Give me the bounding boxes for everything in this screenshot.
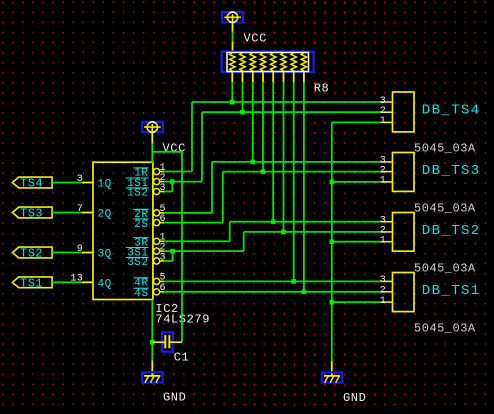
connector DB_TS4 body: [393, 92, 415, 132]
svg-text:3: 3: [380, 275, 386, 286]
wire DB_TS4 pin1 to GND rail: [332, 121, 382, 123]
junction R8d/TS3b: [261, 169, 266, 174]
connector DB_TS1 body: [393, 273, 415, 312]
wire 1S2 tie vertical: [171, 182, 173, 192]
connector TS2: [12, 247, 52, 258]
junction GND/DB_TS1.1: [330, 300, 335, 305]
capacitor C1: [152, 332, 182, 352]
pin 5 bubble (2R): [154, 210, 165, 216]
connector DB_TS2 body: [393, 213, 415, 252]
svg-text:3Q: 3Q: [98, 249, 112, 261]
svg-text:1: 1: [380, 176, 386, 187]
wire net TS3b to DB_TS3 pin2: [223, 171, 382, 173]
svg-text:1Q: 1Q: [98, 179, 112, 191]
wire riser net TS3b: [222, 172, 224, 223]
IC IC2 74LS279 body: [93, 162, 153, 299]
junction R8f/TS2b: [281, 230, 286, 235]
pin stub DB_TS2 pin 1: [382, 241, 393, 243]
svg-text:GND: GND: [343, 391, 366, 405]
svg-text:C1: C1: [174, 350, 190, 364]
svg-text:GND: GND: [163, 390, 186, 404]
junction 1S1/1S2: [170, 179, 175, 184]
pin 6 bubble (4S): [154, 289, 165, 295]
wire 3S2 tie vertical: [172, 251, 174, 261]
svg-text:VCC: VCC: [244, 31, 267, 45]
pin stub R8 pin 1 top: [232, 42, 234, 53]
connector TS1: [12, 277, 52, 288]
svg-text:4S: 4S: [134, 288, 148, 300]
svg-text:1: 1: [380, 236, 386, 247]
pin 3 bubble (1S2): [154, 188, 165, 194]
power symbol VCC (IC supply): [142, 122, 163, 133]
pin stub IC2 TS4 input: [82, 182, 93, 184]
resistor network R8: [222, 52, 314, 73]
svg-text:DB_TS1: DB_TS1: [422, 283, 481, 299]
svg-text:9: 9: [77, 244, 83, 255]
connector TS4: [12, 177, 52, 188]
pin 1 bubble (1R): [154, 168, 165, 174]
power symbol VCC (top supply): [222, 12, 243, 23]
junction R8a/TS4a: [230, 100, 235, 105]
pin stub DB_TS1 pin 1: [382, 301, 393, 303]
wire TS4 to IC2: [52, 182, 82, 184]
junction R8g/TS1a: [291, 279, 296, 284]
svg-text:1: 1: [380, 296, 386, 307]
wire DB_TS2 pin1 row: [332, 241, 382, 243]
wire net TS3a to DB_TS3 pin3: [212, 161, 382, 163]
pin 2 bubble (1S1): [154, 179, 165, 185]
wire pin 1S1 to riser: [164, 181, 202, 183]
wire pin 3S2 stub: [164, 260, 173, 262]
pin 6 bubble (2S): [154, 220, 165, 226]
wire VCC rail down to C1: [181, 152, 183, 342]
wire pin 3S1 to riser: [164, 250, 244, 252]
wires R8 pins down: [232, 82, 304, 291]
svg-text:R8: R8: [314, 82, 330, 96]
pin stub GND symbol right: [331, 361, 333, 376]
svg-text:3S2: 3S2: [127, 257, 148, 269]
ground symbol (left): [142, 372, 163, 383]
wire VCC branch right: [152, 151, 182, 153]
svg-text:DB_TS4: DB_TS4: [422, 103, 481, 119]
pin 3 bubble (3S2): [154, 258, 165, 264]
pin stub VCC IC: [151, 133, 153, 144]
wire riser net TS3a: [211, 162, 213, 213]
svg-text:1: 1: [380, 116, 386, 127]
pin stubs R8 bottom: [232, 72, 304, 83]
wire net TS2a to DB_TS2 pin3: [230, 221, 382, 223]
pin stub DB_TS3 pin 2: [382, 171, 393, 173]
pin stub IC2 TS1 input: [82, 281, 93, 283]
wire TS2 to IC2: [52, 252, 82, 254]
pin 1 bubble (3R): [154, 238, 165, 244]
pin stub DB_TS1 pin 3: [382, 280, 393, 282]
wire TS3 to IC2: [52, 212, 82, 214]
wire pin 4S to DB_TS1 pin2: [164, 291, 382, 293]
wire riser net TS4b: [201, 112, 203, 181]
wire GND rail vertical: [331, 122, 333, 361]
svg-text:5045_03A: 5045_03A: [414, 261, 476, 275]
wire pin 3R to riser: [164, 240, 230, 242]
ground symbol (right): [322, 372, 343, 383]
svg-text:TS1: TS1: [20, 276, 43, 290]
connector DB_TS3 body: [393, 153, 415, 192]
wire net TS4b to DB_TS4 pin2: [202, 111, 382, 113]
pin 2 bubble (3S1): [154, 248, 165, 254]
svg-text:13: 13: [70, 274, 83, 285]
svg-text:TS3: TS3: [20, 207, 43, 221]
junction R8e/TS2a: [271, 219, 276, 224]
pin stub DB_TS3 pin 1: [382, 181, 393, 183]
pin stub IC2 TS3 input: [82, 212, 93, 214]
svg-text:2Q: 2Q: [98, 209, 112, 221]
svg-text:3: 3: [77, 174, 83, 185]
wire riser net TS2b: [243, 232, 245, 251]
wire riser net TS2a: [229, 222, 231, 242]
wire VCC to IC2 power pin: [151, 144, 153, 164]
wire net TS4a to DB_TS4 pin3: [192, 101, 382, 103]
svg-text:TS4: TS4: [20, 177, 43, 191]
wire riser net TS4a: [191, 102, 193, 172]
wire pin 2S to riser: [164, 222, 223, 224]
wire IC2 GND pin down: [151, 300, 153, 361]
pin stub DB_TS3 pin 3: [382, 161, 393, 163]
wire net TS2b to DB_TS2 pin2: [244, 231, 382, 233]
junction GND/DB_TS3.1: [330, 180, 335, 185]
svg-text:DB_TS2: DB_TS2: [422, 223, 481, 239]
wire pin 4R to DB_TS1 pin3: [164, 280, 382, 282]
wire pin 1R to riser: [164, 171, 192, 173]
junction R8h/TS1b: [302, 290, 307, 295]
pin stub DB_TS4 pin 3: [382, 101, 393, 103]
svg-text:1S2: 1S2: [127, 188, 148, 200]
pin stub DB_TS2 pin 3: [382, 221, 393, 223]
pin 5 bubble (4R): [154, 278, 165, 284]
wire DB_TS1 pin1 row: [332, 301, 382, 303]
pin stub DB_TS4 pin 1: [382, 121, 393, 123]
svg-text:5045_03A: 5045_03A: [414, 321, 476, 335]
svg-text:DB_TS3: DB_TS3: [422, 163, 481, 179]
connector TS3: [12, 207, 52, 218]
pin stub DB_TS2 pin 2: [382, 231, 393, 233]
junction GND/C1: [150, 340, 155, 345]
pin stub DB_TS1 pin 2: [382, 291, 393, 293]
svg-text:4Q: 4Q: [98, 278, 112, 290]
wire DB_TS3 pin1 row: [332, 181, 382, 183]
wire VCC supply to R8: [232, 32, 234, 43]
svg-text:5045_03A: 5045_03A: [414, 202, 476, 216]
svg-text:5045_03A: 5045_03A: [414, 142, 476, 156]
junction GND/DB_TS2.1: [330, 239, 335, 244]
wire pin 2R to riser: [164, 212, 212, 214]
junction R8c/TS3a: [251, 160, 256, 165]
svg-text:TS2: TS2: [20, 247, 43, 261]
wire pin 1S2 stub: [164, 191, 172, 193]
svg-text:2S: 2S: [134, 219, 148, 231]
wire TS1 to IC2: [52, 281, 82, 283]
junction 3S1/3S2: [170, 249, 175, 254]
pin stub DB_TS4 pin 2: [382, 111, 393, 113]
pin stub supply VCC: [232, 23, 234, 32]
svg-text:7: 7: [77, 204, 83, 215]
pin stub IC2 TS2 input: [82, 252, 93, 254]
pin stub GND symbol left: [151, 360, 153, 376]
junction R8b/TS4b: [240, 110, 245, 115]
